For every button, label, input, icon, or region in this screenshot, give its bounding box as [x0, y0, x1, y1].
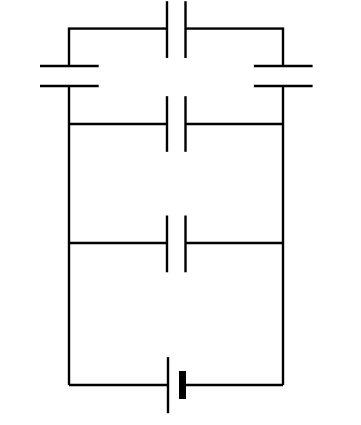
wire bottom-left segment — [69, 384, 168, 386]
wire row3 left segment — [69, 242, 167, 244]
wire top-right segment with corner down to right capacitor — [186, 29, 284, 66]
wire top-left segment with corner down to left capacitor — [69, 29, 167, 66]
wire row2 left segment — [69, 123, 167, 125]
capacitor C4 (row2 middle, vertical plates) — [167, 96, 186, 152]
battery B1 (long thin plate) — [167, 357, 169, 413]
capacitor C3 (right, horizontal plates) — [254, 66, 313, 86]
wire bottom-right segment — [186, 384, 283, 386]
wire row2 right segment — [186, 123, 284, 125]
battery B1 (short thick plate) — [179, 371, 186, 399]
wire row3 right segment — [186, 242, 284, 244]
capacitor C5 (row3 middle, vertical plates) — [167, 216, 186, 273]
capacitor C2 (left, horizontal plates) — [40, 66, 99, 86]
capacitor C1 (top, vertical plates) — [167, 1, 186, 58]
wire right rail — [282, 86, 284, 385]
wire left rail — [68, 86, 70, 385]
